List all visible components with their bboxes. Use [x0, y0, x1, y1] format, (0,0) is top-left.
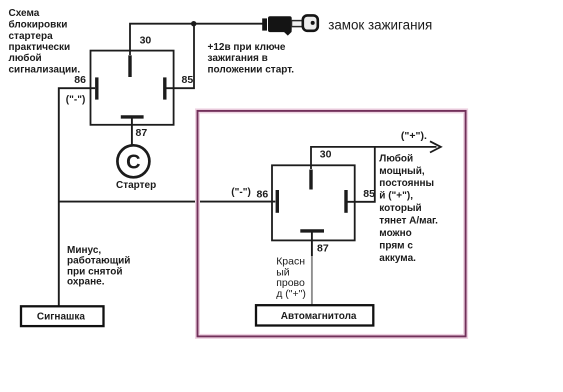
wire: K1 pin86 to minus rail, rail down to siren box: [59, 88, 95, 306]
relay K2 pin 30 contact: [309, 170, 312, 190]
relay K1 pin 86 contact: [95, 77, 98, 99]
svg-text:86: 86: [74, 74, 86, 86]
relay K2 pin 85 contact: [344, 190, 347, 213]
wire: relay K1 pin85 riser to junction: [166, 24, 194, 89]
relay K2 pin 87 contact: [300, 229, 324, 232]
wire: top bus from relay K1 pin30 to ignition lock: [130, 24, 264, 55]
svg-text:Стартер: Стартер: [116, 180, 156, 191]
node: junction dot on +12V bus: [191, 21, 196, 26]
svg-text:("+").: ("+").: [401, 130, 427, 142]
wire: K2 pin30 up and right to battery plus arrow: [311, 147, 437, 169]
pink highlight frame halo: [198, 111, 466, 337]
svg-text:85: 85: [363, 188, 375, 200]
svg-text:30: 30: [140, 34, 152, 46]
svg-text:Сигнашка: Сигнашка: [37, 312, 85, 323]
svg-text:86: 86: [257, 189, 269, 201]
head unit box (Автомагнитола): [256, 305, 373, 325]
wire: K1 pin87 down to starter: [131, 117, 133, 145]
pink highlight frame: [198, 111, 466, 337]
wire: K2 pin87 stub (black): [311, 233, 313, 257]
svg-text:30: 30: [320, 149, 332, 161]
svg-text:замок зажигания: замок зажигания: [328, 18, 432, 33]
arrowhead: to ("+"): [430, 141, 441, 152]
ignition lock (замок зажигания): [262, 15, 318, 35]
svg-text:87: 87: [317, 242, 329, 254]
relay K2 pin 86 contact: [276, 190, 279, 213]
starter motor symbol: [117, 145, 149, 177]
svg-text:Автомагнитола: Автомагнитола: [281, 311, 357, 322]
wire: minus rail branch to relay K2 pin 86: [58, 201, 275, 203]
wire: red wire to head unit (grey drawn): [311, 256, 313, 305]
relay K1 pin 87 contact: [121, 115, 144, 118]
svg-text:87: 87: [136, 127, 148, 139]
svg-text:("-"): ("-"): [66, 95, 85, 106]
svg-text:Красныйпровод ("+"): Красныйпровод ("+"): [276, 256, 306, 300]
svg-text:("-"): ("-"): [231, 187, 250, 198]
relay K1 body: [91, 51, 174, 125]
svg-text:85: 85: [182, 74, 194, 86]
svg-text:С: С: [126, 152, 140, 174]
wire: K2 pin85 to riser joining plus wire: [348, 147, 375, 202]
siren box (Сигнашка): [21, 306, 104, 326]
relay K2 body: [272, 165, 355, 240]
relay K1 pin 85 contact: [163, 77, 166, 99]
relay K1 pin 30 contact: [128, 55, 131, 77]
